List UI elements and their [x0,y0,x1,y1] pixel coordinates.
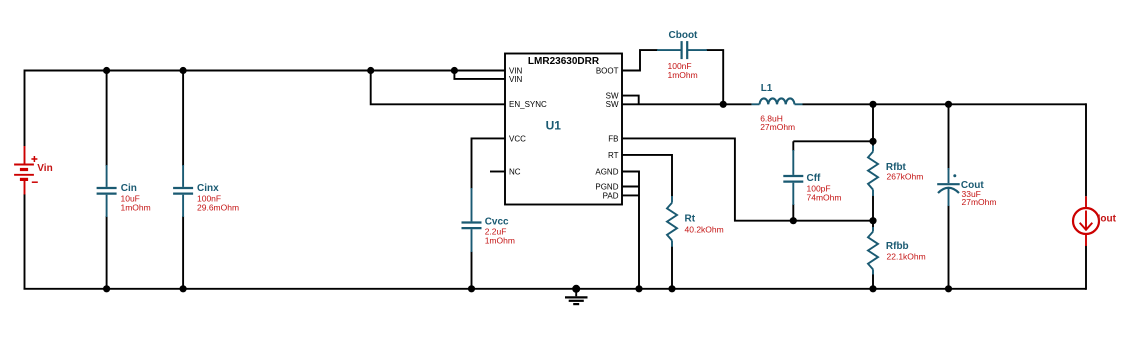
wire RT to Rt top [622,155,672,197]
svg-text:27mOhm: 27mOhm [962,197,997,207]
capacitor Cboot [657,41,707,59]
resistor Rfbb [868,227,878,275]
wire PAD stub [622,194,639,196]
wire BOOT to Cboot left [622,50,658,70]
wire SW pin1 stub [622,96,639,105]
wire Cin branch upper [106,71,108,167]
wire Cvcc branch lower [471,251,473,289]
svg-text:1mOhm: 1mOhm [485,235,515,245]
svg-text:NC: NC [509,167,521,176]
wire Cout branch lower [948,205,950,289]
node junction SW rail Rfbt [869,101,876,108]
svg-text:FB: FB [608,134,618,143]
capacitor Cff [783,150,803,205]
node junction bottom rail Cinx [180,285,187,292]
svg-text:Vin: Vin [37,163,52,174]
node junction top rail Cin [103,67,110,74]
node junction top rail EN_SYNC [367,67,374,74]
svg-text:SW: SW [606,92,619,101]
svg-text:Cff: Cff [807,173,822,184]
wire Cout branch upper [948,104,950,170]
node junction bottom rail Cout [945,285,952,292]
svg-text:22.1kOhm: 22.1kOhm [887,251,926,261]
svg-text:1mOhm: 1mOhm [121,202,151,212]
node junction Cff top Rfbt [869,138,876,145]
svg-text:AGND: AGND [595,167,618,176]
svg-text:74mOhm: 74mOhm [807,193,842,203]
wire Cinx branch lower [182,216,184,289]
wire Cff top tap [793,140,873,142]
wire Cff branch lower [792,204,794,221]
wire PGND stub [622,186,639,188]
wire output right vertical upper [1085,103,1087,196]
wire AGND branch [622,172,639,289]
svg-text:VIN: VIN [509,75,523,84]
svg-text:Iout: Iout [1098,213,1117,224]
svg-text:PGND: PGND [595,182,618,191]
wire Rt bottom [671,246,673,288]
capacitor Cout polarized [937,168,960,206]
wire VCC to Cvcc top [472,138,506,189]
ground [565,289,588,304]
svg-text:27mOhm: 27mOhm [760,122,795,132]
svg-text:Rt: Rt [685,213,696,224]
wire FB to feedback node [622,138,873,220]
wire Rfbb branch lower [872,274,874,289]
wire Cinx branch upper [182,71,184,167]
wire Rfbt branch upper [872,104,874,146]
wire left vertical Vin branch upper [24,70,26,147]
svg-text:Rfbb: Rfbb [886,241,909,252]
node junction FB Cff bottom [790,217,797,224]
resistor Rt [667,196,677,247]
wire left vertical Vin branch lower [24,194,26,289]
node junction top rail VIN2 [451,67,458,74]
wire NC stub [490,171,505,173]
wire Cff branch upper [792,141,794,151]
svg-text:L1: L1 [761,83,773,94]
node junction bottom rail AGND [635,285,642,292]
current source Iout [1073,196,1099,246]
wire bottom ground rail [24,288,1087,290]
wire Rfbt branch lower [872,196,874,221]
wire Cin branch lower [106,216,108,289]
svg-text:LMR23630DRR: LMR23630DRR [528,56,600,67]
capacitor Cin [97,165,117,217]
resistor Rfbt [868,146,878,197]
svg-text:SW: SW [606,100,619,109]
wire Rfbb branch upper [872,221,874,228]
wire output right vertical lower [1085,246,1087,290]
node junction SW rail Cboot [720,101,727,108]
svg-text:PAD: PAD [603,191,619,200]
voltage source Vin [14,146,38,195]
svg-text:EN_SYNC: EN_SYNC [509,100,547,109]
node junction bottom rail Cin [103,285,110,292]
svg-text:VCC: VCC [509,134,526,143]
inductor L1 [752,98,803,104]
svg-text:29.6mOhm: 29.6mOhm [197,202,239,212]
svg-text:267kOhm: 267kOhm [887,171,924,181]
wire SW rail to L1 [622,103,752,105]
op-amp U1 IC body LMR23630DRR [505,54,622,205]
wire VIN pin2 branch [454,71,505,79]
capacitor Cinx [173,165,193,217]
wire top rail Vin to U1 VIN [25,70,506,72]
svg-text:U1: U1 [546,119,562,133]
svg-text:BOOT: BOOT [596,66,619,75]
node junction FB Rfb divider [869,217,876,224]
svg-text:Cboot: Cboot [669,30,699,41]
node junction bottom rail Cvcc [468,285,475,292]
node junction top rail Cinx [180,67,187,74]
node junction bottom rail Rfbb [869,285,876,292]
node junction bottom rail ground [572,285,580,293]
svg-text:40.2kOhm: 40.2kOhm [685,224,724,234]
wire EN_SYNC branch [371,71,505,105]
svg-text:RT: RT [608,151,619,160]
capacitor Cvcc [462,188,482,252]
node junction bottom rail Rt [668,285,675,292]
wire L1 to output node [803,103,1087,105]
svg-text:1mOhm: 1mOhm [668,70,698,80]
wire Cboot right to SW rail [706,50,723,104]
node junction SW rail Cout [945,101,952,108]
